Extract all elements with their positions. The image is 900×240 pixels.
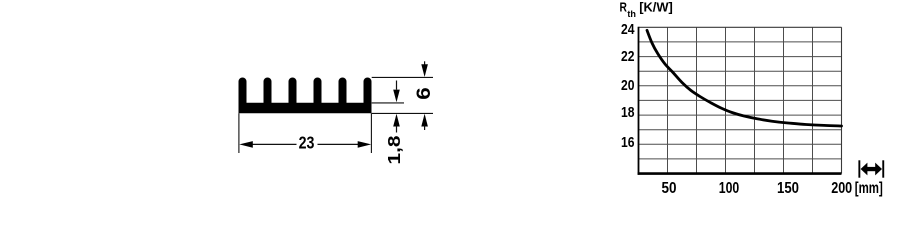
svg-text:23: 23 bbox=[299, 133, 315, 153]
y-axis tick label 20 bbox=[621, 78, 635, 94]
svg-text:50: 50 bbox=[662, 180, 677, 197]
length direction icon (double arrow between bars) bbox=[858, 160, 884, 177]
svg-text:200: 200 bbox=[831, 180, 852, 197]
extension line bottom right (base bottom level) bbox=[372, 112, 433, 114]
svg-text:20: 20 bbox=[621, 78, 635, 94]
svg-text:18: 18 bbox=[621, 105, 635, 121]
x-axis tick label 200 and unit [mm] bbox=[831, 180, 883, 197]
x-axis tick label 150 bbox=[777, 180, 799, 197]
svg-text:22: 22 bbox=[621, 49, 635, 65]
extension line top right (fin top level) bbox=[372, 76, 433, 78]
chart horizontal gridlines bbox=[639, 42, 842, 159]
svg-text:100: 100 bbox=[719, 180, 740, 197]
dimension 23 (width): line, arrows, label bbox=[239, 133, 371, 153]
y-axis tick label 18 bbox=[621, 105, 635, 121]
svg-text:150: 150 bbox=[777, 180, 799, 197]
chart vertical gridlines bbox=[668, 27, 813, 173]
svg-text:6: 6 bbox=[414, 87, 435, 100]
x-axis tick label 100 bbox=[719, 180, 740, 197]
y-axis tick label 16 bbox=[621, 135, 635, 151]
svg-text:1,8: 1,8 bbox=[384, 135, 404, 164]
extension line right (width dim) bbox=[370, 113, 372, 153]
dimension 1,8 (base thickness): arrows outside + rotated label bbox=[384, 81, 404, 165]
chart right border bbox=[841, 27, 843, 173]
svg-text:24: 24 bbox=[621, 22, 635, 38]
dimension 6 (overall height): arrows outside + rotated label bbox=[414, 61, 435, 130]
extension line left (width dim) bbox=[238, 113, 240, 153]
chart left axis (y-axis) bbox=[638, 27, 640, 175]
svg-text:th: th bbox=[627, 9, 636, 20]
svg-text:R: R bbox=[620, 0, 628, 15]
heatsink extruded profile cross-section (black body with 6 fins) bbox=[239, 78, 372, 114]
svg-text:[K/W]: [K/W] bbox=[639, 0, 673, 15]
svg-text:[mm]: [mm] bbox=[855, 180, 883, 197]
y-axis tick label 24 bbox=[621, 22, 635, 38]
chart bottom axis (x-axis) bbox=[638, 172, 842, 175]
chart axis label R_th [K/W] bbox=[620, 0, 673, 20]
svg-text:16: 16 bbox=[621, 135, 635, 151]
thermal resistance curve Rth vs length bbox=[647, 30, 842, 126]
extension line middle right (base top level) bbox=[372, 102, 404, 104]
chart top border bbox=[639, 26, 842, 28]
y-axis tick label 22 bbox=[621, 49, 635, 65]
x-axis tick label 50 bbox=[662, 180, 677, 197]
